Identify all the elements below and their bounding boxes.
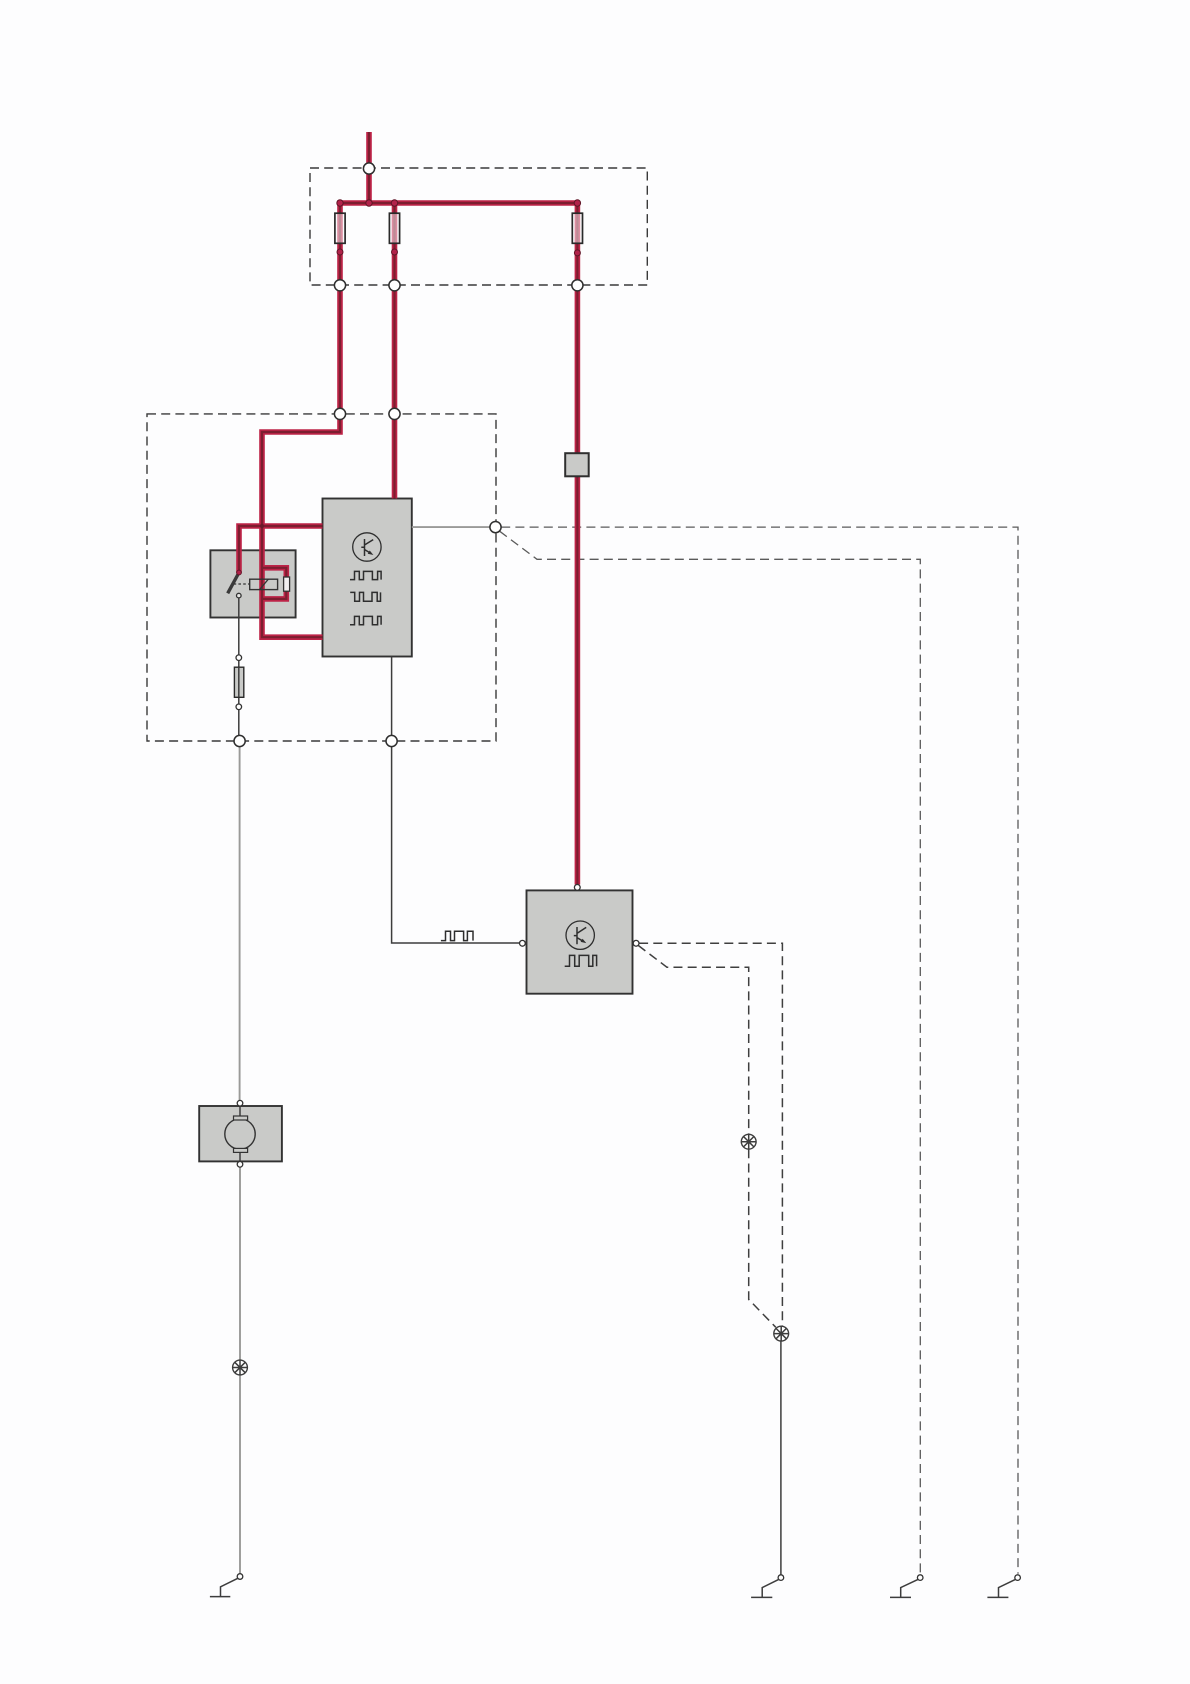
junction bus-F3 [574, 200, 580, 206]
wire F3 to U2 [575, 291, 581, 885]
wire fuse F1 branch [337, 203, 343, 285]
node C relay out [234, 735, 245, 746]
control unit enclosure (dashed) [147, 414, 496, 741]
wire U1 right pin to node B [412, 526, 490, 528]
pwm symbol on U2 input wire [441, 931, 473, 940]
ground G4 [987, 1575, 1020, 1598]
wire U1 bottom to node D [391, 657, 393, 736]
module U2 internals [565, 921, 597, 966]
node F1 out [334, 280, 345, 291]
connector M1 bottom [237, 1162, 243, 1168]
wire relay to fuse F4 [238, 598, 240, 735]
pwm symbol U1-1 [350, 571, 381, 579]
relay switch arm [228, 573, 239, 594]
connector U2 top pin [574, 885, 580, 891]
wire relay switch feed [239, 526, 323, 573]
wire core F1 to relay [262, 291, 340, 637]
ground G3 [890, 1575, 923, 1598]
relay suppression resistor [284, 577, 290, 591]
wire core F3 to U2 [576, 291, 578, 885]
transistor symbol U1 [353, 533, 381, 561]
wire motor M1 to ground G1 [239, 1161, 241, 1574]
connector M1 top [237, 1100, 243, 1106]
junction bus-F2 [391, 200, 397, 206]
module U1 body [323, 499, 412, 657]
fuse F3 [572, 213, 582, 243]
wire dashed U2 to ground G2 direct [639, 943, 782, 1326]
fuse F1 [335, 213, 345, 243]
module U1 internals [350, 533, 381, 625]
wire splice S3 to ground G2 [780, 1341, 782, 1575]
motor lead top [239, 1106, 241, 1116]
junction bus-feed [366, 200, 372, 206]
fuse F4 [234, 667, 243, 697]
motor brush bottom [234, 1148, 248, 1152]
node A2 module feed in [389, 408, 400, 419]
junction below F1 [337, 249, 343, 255]
connector U2 left pin [520, 940, 526, 946]
relay contact [237, 593, 242, 598]
wire F1 to relay feed [262, 291, 340, 637]
junction below F3 [574, 250, 580, 256]
wire fuse F2 branch [392, 203, 398, 285]
wire core fuse bus [340, 203, 577, 206]
wire core relay switch feed [239, 526, 323, 573]
wire dashed node B to ground G3 [500, 531, 921, 1574]
motor armature [225, 1119, 255, 1149]
node F2 out [389, 280, 400, 291]
wire battery feed [366, 132, 372, 203]
connector U2 right pin [633, 940, 639, 946]
wire node D to U2 left pin [392, 747, 520, 943]
wire core F1 branch [339, 203, 341, 285]
relay K1 body [210, 550, 295, 617]
relay coil [250, 579, 278, 589]
wire F2 to U1 [392, 291, 398, 499]
node battery in [363, 163, 374, 174]
wire resistor loop [262, 568, 286, 599]
junction bus-F1 [337, 200, 343, 206]
wire dashed U2 via splice S2 [638, 945, 749, 1134]
wire node C to motor M1 [239, 747, 241, 1101]
motor lead bottom [239, 1152, 241, 1161]
wire core battery feed [368, 132, 370, 203]
motor M1 body [199, 1106, 282, 1161]
junction below F2 [392, 249, 398, 255]
pwm symbol U1-3 [350, 616, 381, 624]
wire dashed node B to ground G4 [501, 527, 1018, 1574]
splice S3 [774, 1326, 789, 1341]
wire dashed splice S2 to splice S3 [749, 1149, 776, 1327]
relay actuation link [234, 583, 250, 585]
relay K1 internals [228, 570, 290, 598]
wire fuse F3 branch [575, 203, 581, 285]
fuse F2 [389, 213, 399, 243]
wire core F2 branch [393, 203, 395, 285]
connector F4 bottom [236, 704, 242, 710]
pwm symbol U2 [565, 955, 597, 966]
relay pivot [237, 570, 242, 575]
fuse box (dashed enclosure) [310, 168, 647, 285]
ground G2 [751, 1575, 784, 1598]
node F3 out [572, 280, 583, 291]
ground G1 [210, 1574, 243, 1597]
wire core F3 branch [576, 203, 578, 285]
transistor symbol U2 [566, 921, 594, 949]
motor brush top [234, 1116, 248, 1120]
wire core F2 to U1 [393, 291, 395, 499]
connector F4 top [236, 655, 242, 661]
pwm symbol U1-2 [350, 592, 380, 601]
node B signal out [490, 522, 501, 533]
connector block on F3 wire [565, 453, 589, 476]
module U2 body [527, 890, 633, 993]
splice S2 [741, 1134, 756, 1149]
motor M1 internals [225, 1106, 255, 1161]
junction relay feed split [260, 524, 264, 528]
splice S1 [233, 1360, 248, 1375]
node D module out [386, 735, 397, 746]
wire core resistor loop [262, 568, 286, 599]
wire fuse bus [340, 203, 577, 206]
node A1 relay feed in [334, 408, 345, 419]
